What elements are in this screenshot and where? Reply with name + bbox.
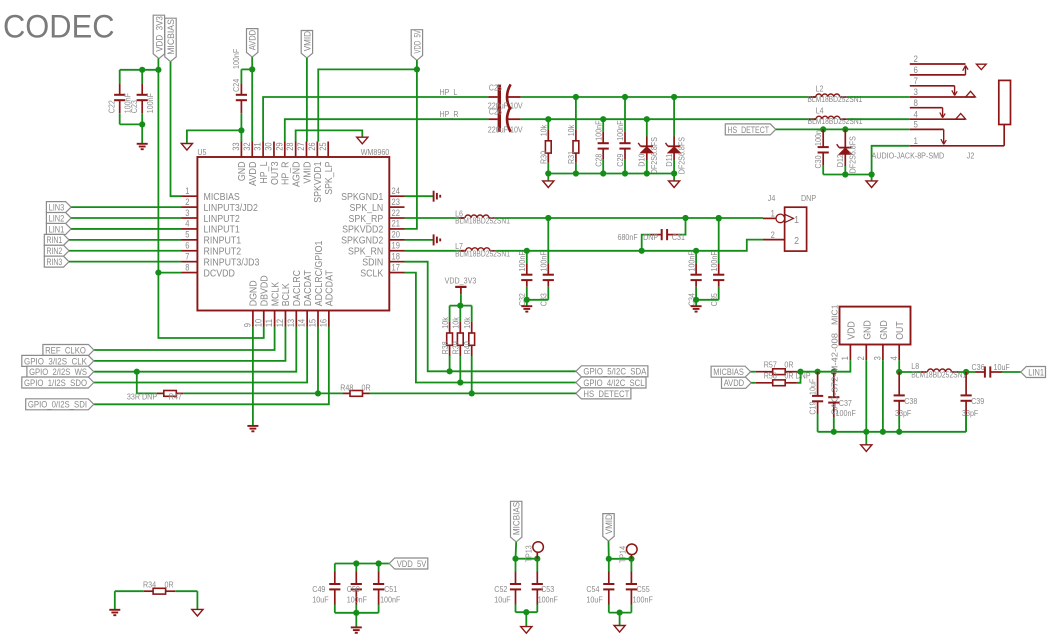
svg-text:100nF: 100nF <box>538 595 558 605</box>
net flag HS_DETECT (right) <box>725 124 776 135</box>
net flag GPIO_4/I2C_SCL <box>576 377 646 388</box>
MIC1 pins 1-4 <box>840 320 906 361</box>
wire pin20 SPKGND2 <box>405 239 434 241</box>
svg-text:C53: C53 <box>541 584 554 594</box>
svg-text:7: 7 <box>914 76 918 87</box>
svg-text:R58: R58 <box>764 370 777 380</box>
wire MIC1 pin2 to gnd rail <box>865 360 867 432</box>
wire AGND pin28 <box>296 130 363 141</box>
svg-text:D10: D10 <box>637 153 647 166</box>
net flag GPIO_0/I2S_SDI <box>26 399 94 410</box>
net flag GPIO_5/I2C_SDA <box>576 366 648 377</box>
svg-text:C23: C23 <box>129 100 139 113</box>
capacitor C30 100nF <box>813 129 829 174</box>
svg-text:HP_R: HP_R <box>440 109 459 119</box>
testpoint TP13 <box>524 542 544 563</box>
svg-text:0R: 0R <box>784 359 793 369</box>
svg-text:VDD_5V: VDD_5V <box>397 559 427 569</box>
svg-text:DNP: DNP <box>801 193 816 203</box>
wire MICBIAS row to MIC1 pin1 <box>797 360 850 375</box>
svg-text:23: 23 <box>392 197 400 207</box>
diode D10 DF2S6.8FS <box>637 119 659 174</box>
wire SPK_RP pin22 to L6 <box>405 217 466 219</box>
ground triangle under MIC1 <box>861 445 872 452</box>
svg-text:25: 25 <box>318 142 328 150</box>
resistor R39 10k <box>451 306 464 383</box>
ground (rotated) pin24 <box>434 191 441 202</box>
ground under C34 <box>691 306 702 311</box>
svg-text:14: 14 <box>297 319 307 327</box>
wire GND pin33 <box>187 127 245 143</box>
svg-text:3: 3 <box>873 356 883 360</box>
inductor L7 BLM18BD252SN1 <box>455 241 510 258</box>
svg-text:C25: C25 <box>489 83 502 93</box>
svg-text:HS_DETECT: HS_DETECT <box>583 389 629 399</box>
ground under C32 <box>521 306 532 311</box>
svg-text:VMID: VMID <box>604 514 614 535</box>
inductor L2 BLM18BD252SN1 <box>807 84 862 104</box>
svg-text:31: 31 <box>253 142 263 150</box>
net flag RIN1 <box>44 234 69 245</box>
svg-text:AVDD: AVDD <box>248 29 258 50</box>
wire pin24 SPKGND1 <box>405 195 434 197</box>
svg-text:L4: L4 <box>816 106 824 116</box>
resistor R31 10k <box>566 97 579 174</box>
svg-text:C55: C55 <box>637 584 650 594</box>
capacitor C19 10uF <box>808 372 824 432</box>
svg-text:GPIO_5/I2C_SDA: GPIO_5/I2C_SDA <box>583 367 646 377</box>
svg-text:C50: C50 <box>347 584 360 594</box>
svg-text:C38: C38 <box>904 396 917 406</box>
net flag REF_CLKO <box>43 345 94 356</box>
ground under C50 <box>351 627 362 632</box>
net flag LIN2 <box>46 213 71 224</box>
svg-text:1: 1 <box>840 356 850 360</box>
svg-text:TP14: TP14 <box>618 546 628 563</box>
svg-text:DF2S6.8FS: DF2S6.8FS <box>649 137 659 175</box>
resistor R38 10k <box>440 306 453 372</box>
svg-text:DNP: DNP <box>643 232 658 242</box>
svg-text:HS_DETECT: HS_DETECT <box>728 125 770 135</box>
supply flag MICBIAS (bottom) <box>511 501 522 542</box>
svg-text:R39: R39 <box>451 341 461 354</box>
capacitor C24 <box>231 49 247 131</box>
svg-text:100nF: 100nF <box>593 120 603 140</box>
wire DACLRC to GPIO_2/I2S_WS <box>94 327 296 375</box>
wire C32-C33 gnd rail <box>524 297 549 307</box>
svg-text:5: 5 <box>185 230 189 240</box>
diode D12 DF2S6.8FS <box>835 129 857 174</box>
svg-text:C54: C54 <box>586 584 599 594</box>
svg-text:LIN1: LIN1 <box>1028 367 1044 377</box>
wire MICBIAS tp rail <box>512 542 540 562</box>
ground under R34 left <box>109 610 120 615</box>
wire DGND pin9 to ground <box>252 327 254 426</box>
svg-text:2: 2 <box>794 235 799 247</box>
net flag AVDD (mic) <box>722 377 752 388</box>
svg-text:AVDD: AVDD <box>724 378 745 388</box>
wire VDD_5V net <box>318 60 420 229</box>
svg-text:26: 26 <box>307 142 317 150</box>
capacitor C39 33pF <box>961 372 985 432</box>
wire HP_R pin29 to C26 <box>285 109 489 142</box>
wire HP_L C25 to L2 <box>521 94 816 100</box>
svg-text:R57: R57 <box>764 359 777 369</box>
svg-text:10: 10 <box>253 319 263 327</box>
svg-text:10k: 10k <box>440 317 450 329</box>
svg-text:RIN3: RIN3 <box>47 257 63 267</box>
wire L4 to jack pin4 <box>848 118 910 120</box>
svg-text:30: 30 <box>264 142 274 150</box>
capacitor C37 100nF <box>828 372 856 432</box>
svg-text:29: 29 <box>274 142 284 150</box>
svg-text:R47: R47 <box>169 391 182 401</box>
wire DACDAT to GPIO_1/I2S_SDO <box>94 327 307 383</box>
svg-text:SAC-372-M-42-008: SAC-372-M-42-008 <box>830 333 840 415</box>
net flag HS_DETECT (left) <box>576 388 631 399</box>
ground triangle under C54 <box>614 626 625 633</box>
net flag LIN1 <box>46 223 71 234</box>
wire MICBIAS to pin1 <box>171 62 182 197</box>
testpoint TP14 <box>618 544 637 563</box>
wire RIN1 to U5 <box>69 239 182 241</box>
svg-text:C28: C28 <box>593 153 603 166</box>
svg-text:DF2S6.8FS: DF2S6.8FS <box>848 136 858 174</box>
svg-text:7: 7 <box>185 251 189 261</box>
svg-text:J2: J2 <box>967 150 975 160</box>
svg-text:C37: C37 <box>839 398 852 408</box>
svg-text:C31: C31 <box>672 232 685 242</box>
wire VMID to pin27 <box>306 58 308 142</box>
wire SPK_RN pin19 to L7 <box>405 250 466 252</box>
connector J2 AUDIO-JACK-8P-SMD <box>910 54 1011 147</box>
svg-text:100nF: 100nF <box>686 251 696 271</box>
svg-text:WM8960: WM8960 <box>361 147 390 157</box>
svg-text:L2: L2 <box>816 84 824 94</box>
svg-text:C52: C52 <box>494 584 507 594</box>
capacitor C54 10uF <box>586 559 614 613</box>
svg-text:24: 24 <box>392 186 400 196</box>
capacitor C35 100nF <box>709 218 724 306</box>
svg-text:R30: R30 <box>539 151 549 164</box>
svg-text:MIC1: MIC1 <box>830 304 840 325</box>
capacitor C33 100nF <box>539 218 554 306</box>
capacitor C28 100nF <box>593 119 608 173</box>
svg-text:0R: 0R <box>165 580 174 590</box>
svg-text:2: 2 <box>185 197 189 207</box>
svg-text:MICBIAS: MICBIAS <box>166 19 176 55</box>
capacitor C25 (polarized) <box>488 83 523 111</box>
wire MCLK to REF_CLKO <box>94 327 275 351</box>
U5 top pins 33-25 <box>231 142 335 203</box>
svg-text:2: 2 <box>914 54 918 65</box>
svg-text:VDD_3V3: VDD_3V3 <box>154 16 164 52</box>
net flag VDD_5V (bottom) <box>389 558 428 569</box>
wire GPIO_2 branch to R47 <box>137 372 157 394</box>
svg-text:12: 12 <box>275 319 285 327</box>
svg-text:16: 16 <box>318 319 328 327</box>
inductor L4 BLM18BD252SN1 <box>808 106 863 126</box>
wire L2 to jack pin3 <box>848 96 910 98</box>
svg-text:HP_L: HP_L <box>440 87 458 97</box>
wire LIN2 to U5 <box>71 217 181 219</box>
svg-text:100nF: 100nF <box>380 595 400 605</box>
svg-text:OUT: OUT <box>894 321 906 340</box>
wire LIN3 to U5 <box>71 206 181 208</box>
wire SDIN to GPIO_5/I2C_SDA <box>405 262 576 375</box>
wire SCLK to GPIO_4/I2C_SCL <box>405 273 576 386</box>
wire SPK_RN L7 to J4 pin2 <box>496 240 763 254</box>
wire BCLK to GPIO_3/I2S_CLK <box>94 327 286 361</box>
wire J4 pin1 junction <box>716 215 722 221</box>
wire C49-C51 gnd rail <box>335 610 379 628</box>
supply flag VDD_5V <box>411 30 422 61</box>
supply flag VMID (bottom) <box>603 514 614 542</box>
resistor R58 0R DNP <box>751 370 811 385</box>
wire VMID tp rail <box>606 541 635 562</box>
net flag MICBIAS (mic) <box>711 366 751 377</box>
svg-text:680nF: 680nF <box>618 232 638 242</box>
svg-text:MICBIAS: MICBIAS <box>512 502 522 535</box>
svg-text:R40: R40 <box>462 341 472 354</box>
svg-text:GND: GND <box>878 320 890 340</box>
svg-text:1: 1 <box>771 209 775 219</box>
svg-text:GPIO_2/I2S_WS: GPIO_2/I2S_WS <box>29 367 87 377</box>
wire VDD_5V bottom rail <box>335 560 389 566</box>
inductor L8 BLM18BD252SN1 <box>911 361 966 379</box>
svg-text:100nF: 100nF <box>347 595 367 605</box>
resistor R30 10k <box>539 119 552 173</box>
ground triangle left of U5 <box>181 144 192 151</box>
svg-text:VDD: VDD <box>845 321 857 340</box>
svg-text:TP13: TP13 <box>524 545 534 562</box>
ground triangle under D11 <box>669 181 680 188</box>
svg-text:LIN2: LIN2 <box>49 213 65 223</box>
svg-text:C26: C26 <box>489 107 502 117</box>
supply flag VMID <box>301 31 312 59</box>
svg-text:10uF: 10uF <box>586 595 602 605</box>
svg-text:27: 27 <box>296 142 306 150</box>
svg-text:10k: 10k <box>462 317 472 329</box>
svg-text:100nF: 100nF <box>709 251 719 271</box>
wire MIC1 OUT to L8 <box>896 360 920 375</box>
svg-text:RIN2: RIN2 <box>47 246 63 256</box>
capacitor C31 680nF DNP <box>618 218 686 251</box>
wire HP_R C26 to L4 <box>521 116 816 122</box>
capacitor C32 100nF <box>517 251 532 306</box>
wire C52-C53 gnd rail <box>516 609 538 626</box>
svg-text:VDD_3V3: VDD_3V3 <box>445 276 477 286</box>
svg-text:8: 8 <box>185 262 189 272</box>
svg-text:C39: C39 <box>971 396 984 406</box>
wire VDD_3V3 to pin8 <box>158 272 181 274</box>
wire HP_L pin31 to C25 <box>263 87 488 142</box>
svg-text:8: 8 <box>914 98 918 109</box>
capacitor C26 (polarized) <box>488 107 523 135</box>
wire pullup rail <box>450 303 472 309</box>
svg-text:33pF: 33pF <box>895 408 911 418</box>
svg-text:10k: 10k <box>566 124 576 136</box>
svg-text:MICBIAS: MICBIAS <box>713 367 744 377</box>
svg-text:C30: C30 <box>813 155 823 168</box>
wire R48 to HS_DETECT <box>370 390 576 396</box>
svg-text:C24: C24 <box>231 79 241 92</box>
svg-text:D11: D11 <box>664 153 674 166</box>
svg-text:CODEC: CODEC <box>3 9 115 45</box>
U5 bottom pins 9-16 <box>243 240 336 327</box>
svg-text:LIN3: LIN3 <box>49 203 65 213</box>
wire RIN3 to U5 <box>69 261 182 263</box>
wire C54-C55 gnd rail <box>609 610 632 626</box>
svg-text:RIN1: RIN1 <box>47 235 63 245</box>
svg-text:11: 11 <box>264 319 274 327</box>
svg-text:R48: R48 <box>340 383 353 393</box>
capacitor C34 100nF <box>686 251 701 306</box>
supply flag MICBIAS <box>165 18 176 61</box>
svg-text:10k: 10k <box>539 124 549 136</box>
resistor R40 10k <box>462 306 475 394</box>
capacitor C49 10uF <box>312 564 340 613</box>
svg-text:VMID: VMID <box>302 31 312 52</box>
svg-text:C36: C36 <box>972 362 985 372</box>
capacitor C51 100nF <box>373 564 400 613</box>
svg-text:3: 3 <box>914 87 918 98</box>
svg-text:10uF: 10uF <box>494 595 510 605</box>
U5 left pins 1-8 <box>182 186 260 279</box>
svg-text:33R DNP: 33R DNP <box>127 391 157 401</box>
svg-text:33pF: 33pF <box>962 408 978 418</box>
ground triangle under jack <box>866 181 877 188</box>
svg-text:DCVDD: DCVDD <box>204 267 236 279</box>
ground triangle under C52 <box>521 627 532 634</box>
svg-text:GND: GND <box>861 320 873 340</box>
svg-text:R38: R38 <box>440 341 450 354</box>
ground under C23 <box>137 144 148 149</box>
wire RIN2 to U5 <box>69 250 182 252</box>
resistor R57 0R <box>751 359 801 374</box>
svg-text:C29: C29 <box>615 153 625 166</box>
wire R47 to pin15 <box>183 392 318 394</box>
svg-text:D12: D12 <box>835 154 845 167</box>
resistor R34 0R <box>115 580 198 610</box>
svg-text:VDD_5V: VDD_5V <box>412 30 422 53</box>
svg-text:SCLK: SCLK <box>360 267 383 279</box>
net flag GPIO_1/I2S_SDO <box>22 377 94 388</box>
svg-text:C51: C51 <box>384 584 397 594</box>
capacitor C38 33pF <box>894 372 918 432</box>
svg-text:6: 6 <box>914 65 918 76</box>
svg-text:0R: 0R <box>362 383 371 393</box>
svg-text:10uF: 10uF <box>808 379 818 395</box>
IC U5 WM8960 body <box>197 157 389 311</box>
svg-text:28: 28 <box>285 142 295 150</box>
net flag LIN3 <box>46 202 71 213</box>
ground triangle under R30 <box>543 181 554 188</box>
svg-text:33: 33 <box>231 142 241 150</box>
wire ADCDAT to GPIO_0/I2S_SDI <box>94 327 329 405</box>
resistor R48 0R <box>318 383 371 397</box>
svg-text:20: 20 <box>392 230 400 240</box>
svg-text:3: 3 <box>185 208 189 218</box>
svg-text:C22: C22 <box>107 100 117 113</box>
resistor R47 33R DNP <box>127 391 183 402</box>
svg-text:100nF: 100nF <box>231 49 241 69</box>
ground (rotated) pin20 <box>434 234 441 245</box>
svg-text:10uF: 10uF <box>312 595 328 605</box>
svg-text:100n: 100n <box>813 130 823 146</box>
wire MIC1 pin3 to gnd rail <box>882 360 884 432</box>
svg-text:GPIO_4/I2C_SCL: GPIO_4/I2C_SCL <box>583 378 644 388</box>
ground triangle AGND <box>357 137 368 144</box>
svg-text:100nF: 100nF <box>615 120 625 140</box>
U5 right pins 24-17 <box>341 186 404 279</box>
svg-text:10k: 10k <box>451 317 461 329</box>
wire VDD_3V3 rail top-left <box>120 59 162 276</box>
microphone MIC1 body <box>840 307 911 345</box>
wire HS_DETECT to jack pin5 <box>776 126 910 132</box>
svg-text:ADCDAT: ADCDAT <box>324 269 336 306</box>
svg-text:18: 18 <box>392 251 400 261</box>
capacitor C55 100nF <box>626 559 653 613</box>
svg-text:1: 1 <box>185 186 189 196</box>
supply bar VDD_3V3 (pullups) <box>445 276 477 306</box>
svg-text:5: 5 <box>914 120 918 131</box>
svg-text:C19: C19 <box>808 401 818 414</box>
capacitor C52 10uF <box>494 559 521 613</box>
capacitor C22 <box>107 70 133 125</box>
svg-text:R31: R31 <box>566 151 576 164</box>
capacitor C36 10uF <box>972 362 1021 377</box>
wire ADCLRC pin15 down <box>315 327 321 397</box>
wire VDD_3V3 to pin10 DBVDD <box>158 273 263 338</box>
svg-text:R34: R34 <box>143 580 156 590</box>
svg-text:U5: U5 <box>197 147 206 157</box>
connector J4 header <box>763 207 807 251</box>
svg-text:100nF: 100nF <box>145 93 155 113</box>
net flag RIN3 <box>44 256 69 267</box>
wire C34-C35 gnd rail <box>693 297 719 307</box>
svg-text:REF_CLKO: REF_CLKO <box>45 345 86 355</box>
svg-text:100nF: 100nF <box>517 251 527 271</box>
net flag GPIO_3/I2S_CLK <box>22 355 94 366</box>
svg-text:GPIO_1/I2S_SDO: GPIO_1/I2S_SDO <box>24 378 87 388</box>
wire AVDD net <box>241 57 255 141</box>
svg-text:15: 15 <box>308 319 318 327</box>
svg-text:9: 9 <box>243 323 253 327</box>
svg-text:220uF 10V: 220uF 10V <box>488 124 523 134</box>
svg-text:GPIO_0/I2S_SDI: GPIO_0/I2S_SDI <box>28 400 87 410</box>
svg-text:4: 4 <box>185 219 189 229</box>
svg-text:21: 21 <box>392 219 400 229</box>
net flag LIN1 (mic out) <box>1021 367 1046 378</box>
capacitor C23 <box>129 70 155 125</box>
svg-text:10uF: 10uF <box>994 362 1010 372</box>
wire C22-C23 ground rail <box>120 121 146 144</box>
svg-text:32: 32 <box>242 142 252 150</box>
net flag RIN2 <box>44 245 69 256</box>
svg-text:100nF: 100nF <box>539 251 549 271</box>
svg-text:100nF: 100nF <box>633 595 653 605</box>
svg-text:J4: J4 <box>768 193 776 203</box>
svg-text:1: 1 <box>794 214 799 226</box>
svg-text:17: 17 <box>392 262 400 272</box>
svg-text:4: 4 <box>889 356 899 360</box>
diode D11 DF2S6.8FS <box>664 97 686 174</box>
inductor L6 BLM18BD252SN1 <box>455 208 510 225</box>
capacitor C53 100nF <box>532 559 558 613</box>
svg-text:LIN1: LIN1 <box>49 224 65 234</box>
svg-text:19: 19 <box>392 241 400 251</box>
